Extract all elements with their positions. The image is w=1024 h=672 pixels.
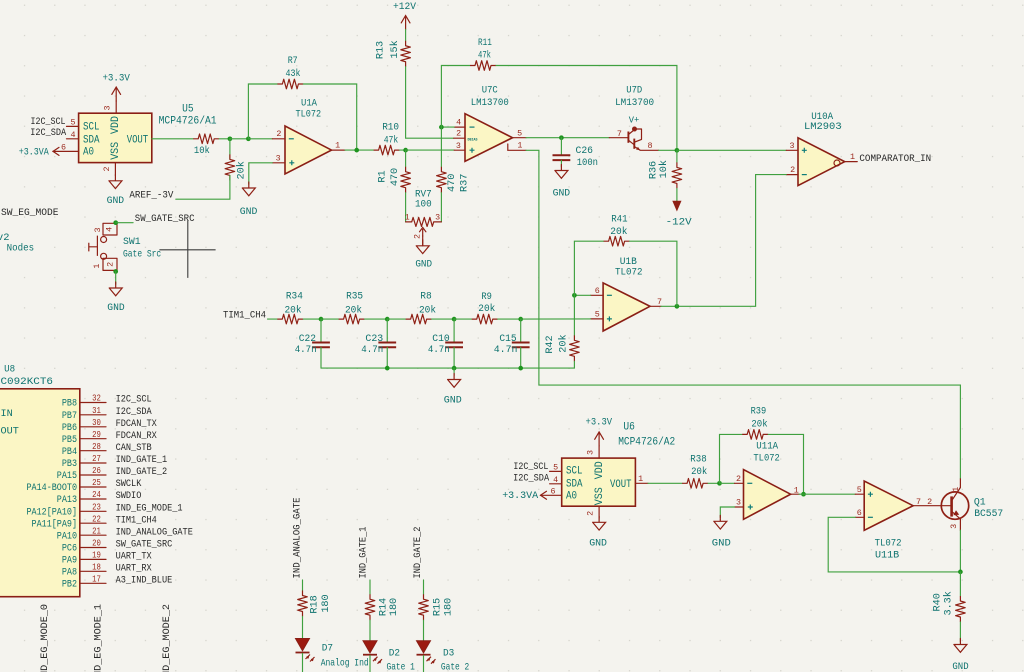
svg-text:1: 1 <box>517 141 522 151</box>
resistor R36 10k vertical <box>676 150 678 162</box>
svg-text:PB6: PB6 <box>62 423 77 434</box>
svg-text:3: 3 <box>789 141 794 151</box>
svg-text:R1: R1 <box>377 170 388 182</box>
U8 pin 18 PA8 stub <box>80 570 106 572</box>
svg-text:R10: R10 <box>382 122 399 133</box>
svg-text:20k: 20k <box>478 303 495 315</box>
svg-text:5: 5 <box>70 117 75 127</box>
svg-text:2: 2 <box>105 262 115 267</box>
resistor R41 20k feedback U1B <box>604 236 630 246</box>
svg-text:GND: GND <box>444 395 462 406</box>
svg-text:6: 6 <box>550 486 555 496</box>
wire U6 VOUT to R38 <box>648 482 682 484</box>
capacitor C22 4.7n <box>320 319 322 342</box>
U11A pin 2 stub <box>735 482 744 484</box>
resistor R18 180 vertical <box>298 591 308 617</box>
svg-text:SCL: SCL <box>83 122 100 134</box>
svg-text:21: 21 <box>92 526 101 536</box>
svg-text:20k: 20k <box>610 226 627 238</box>
op-amp U1A TL072 <box>285 126 332 174</box>
svg-text:PB4: PB4 <box>62 447 77 458</box>
junction U1B output <box>675 304 680 309</box>
U10A pin 2 stub <box>786 174 798 176</box>
U8 pin 32 PB8 stub <box>80 402 106 404</box>
wire feedback up to R7 <box>248 84 277 139</box>
svg-text:SW_EG_MODE: SW_EG_MODE <box>1 208 59 219</box>
svg-text:4.7n: 4.7n <box>295 345 317 356</box>
svg-text:32: 32 <box>92 394 101 404</box>
U8 pin 24 PA13 stub <box>80 498 106 500</box>
resistor R39 20k feedback U11A <box>742 430 768 440</box>
svg-text:GND: GND <box>107 196 125 207</box>
svg-text:10k: 10k <box>194 145 210 157</box>
svg-text:IND_EG_MODE_0: IND_EG_MODE_0 <box>40 604 51 672</box>
wire below D7 <box>302 653 304 672</box>
U1B pin 6 stub <box>591 294 604 296</box>
svg-text:47k: 47k <box>478 49 491 61</box>
svg-text:4.7n: 4.7n <box>361 345 383 356</box>
wire R13 down to U7C pin2 <box>406 67 454 138</box>
svg-text:180: 180 <box>443 598 454 616</box>
svg-text:SW_GATE_SRC: SW_GATE_SRC <box>135 214 195 225</box>
svg-text:PB3: PB3 <box>62 459 77 470</box>
svg-text:SDA: SDA <box>566 478 583 490</box>
capacitor C23 4.7n <box>386 319 388 342</box>
svg-text:180: 180 <box>389 598 400 616</box>
svg-text:FDCAN_RX: FDCAN_RX <box>116 431 157 442</box>
svg-text:SW1: SW1 <box>123 236 141 248</box>
svg-text:U8: U8 <box>4 363 15 375</box>
wire U7C pin1 long net to Q1 collector <box>526 150 960 479</box>
svg-text:LM13700: LM13700 <box>471 97 509 109</box>
wire junction down to R37 <box>440 127 442 167</box>
junction chain node3 <box>452 317 457 322</box>
svg-text:TL072: TL072 <box>296 108 322 120</box>
junction U1B pin6 node <box>572 293 577 298</box>
svg-text:Analog Ind: Analog Ind <box>321 658 369 670</box>
svg-text:3: 3 <box>435 213 440 223</box>
ground below U11A pin3 <box>714 515 727 529</box>
buffer U7D LM13700 darlington <box>609 127 641 151</box>
svg-text:LM2903: LM2903 <box>804 121 842 133</box>
ground below RV7 <box>416 240 429 254</box>
wire node to U11A pin2 <box>720 482 735 484</box>
ground below SW1 <box>109 282 122 296</box>
switch SW1 body <box>89 223 117 270</box>
U5 pin 3 VDD stub <box>115 101 117 113</box>
svg-text:FDCAN_TX: FDCAN_TX <box>116 419 157 430</box>
IC U5 MCP4726/A1 body <box>79 113 152 162</box>
U11B pin 7 output stub to Q1 <box>913 505 941 507</box>
U1A pin 2 stub <box>272 138 285 140</box>
svg-text:4: 4 <box>70 130 75 140</box>
wire SW1 pin2 to ground <box>115 272 117 285</box>
svg-text:AREF_-3V: AREF_-3V <box>129 190 174 201</box>
wire U7C out to U7D pin7 <box>526 137 609 139</box>
op-amp U10A LM2903 comparator <box>798 138 845 186</box>
svg-text:7: 7 <box>657 297 662 307</box>
wire below D2 <box>369 656 371 672</box>
svg-text:SDA: SDA <box>83 134 100 146</box>
svg-text:2: 2 <box>102 166 112 171</box>
svg-text:TL072: TL072 <box>615 267 643 279</box>
svg-text:R39: R39 <box>751 406 767 417</box>
svg-text:D7: D7 <box>322 643 333 655</box>
svg-text:IND_GATE_1: IND_GATE_1 <box>116 455 168 466</box>
svg-text:4: 4 <box>105 227 115 232</box>
svg-text:IN: IN <box>1 409 13 420</box>
svg-text:C26: C26 <box>576 146 594 157</box>
svg-text:3: 3 <box>736 498 741 508</box>
wire R7 to U1A output <box>303 84 356 150</box>
svg-text:I2C_SDA: I2C_SDA <box>116 407 153 418</box>
svg-text:Gate 2: Gate 2 <box>441 661 469 672</box>
U8 pin 23 PA12[PA10] stub <box>80 510 106 512</box>
capacitor C15 4.7n <box>520 319 522 342</box>
junction rail node4 <box>518 366 523 371</box>
resistor R13 15k vertical <box>401 41 411 67</box>
LED D2 Gate 1 <box>363 641 382 664</box>
U8 pin 21 PA10 stub <box>80 534 106 536</box>
svg-text:5: 5 <box>857 485 862 495</box>
ground below U6 <box>593 516 606 530</box>
svg-text:27: 27 <box>92 454 101 464</box>
wire IND_ANALOG_GATE to R18 <box>302 580 304 591</box>
svg-text:D2: D2 <box>389 647 400 659</box>
power symbol -12V <box>673 201 681 210</box>
svg-text:4: 4 <box>456 118 461 128</box>
svg-text:VSS: VSS <box>110 142 122 160</box>
wire IND_GATE_2 to R15 <box>423 580 425 594</box>
svg-text:8: 8 <box>647 141 652 151</box>
svg-text:R15: R15 <box>432 598 443 616</box>
U10A pin 3 stub <box>786 149 798 151</box>
op-amp U1B TL072 <box>603 283 650 331</box>
svg-text:R35: R35 <box>346 292 363 303</box>
wire U5 VOUT to R 10k <box>152 138 193 140</box>
svg-text:A0: A0 <box>566 490 577 502</box>
svg-text:7: 7 <box>617 129 622 139</box>
svg-text:1: 1 <box>405 213 410 223</box>
svg-text:PB7: PB7 <box>62 411 77 422</box>
svg-text:PB8: PB8 <box>62 399 77 410</box>
svg-text:A0: A0 <box>83 146 94 158</box>
U8 pin 30 PB6 stub <box>80 426 106 428</box>
svg-text:R13: R13 <box>376 41 387 59</box>
svg-text:GND: GND <box>240 207 258 218</box>
svg-text:TL072: TL072 <box>753 453 779 465</box>
wire node to U7C pin3 <box>406 149 455 151</box>
ground below U1A pin3 <box>242 182 255 196</box>
svg-text:2: 2 <box>276 129 281 139</box>
wire node to R40 <box>959 572 961 596</box>
wire R11 to right corner down to out node <box>496 66 677 151</box>
svg-text:3: 3 <box>103 105 113 110</box>
junction rail node2 <box>385 366 390 371</box>
U8 pin 27 PB3 stub <box>80 462 106 464</box>
op-amp U7C LM13700 <box>465 114 513 162</box>
svg-text:U11A: U11A <box>756 440 778 452</box>
svg-text:20k: 20k <box>751 419 767 431</box>
svg-text:U11B: U11B <box>875 549 899 561</box>
svg-text:VOUT: VOUT <box>610 479 632 491</box>
U8 pin 26 PA15 stub <box>80 474 106 476</box>
junction R38/U11A node <box>717 481 722 486</box>
svg-text:R11: R11 <box>478 38 492 49</box>
wire pin8 to node <box>659 149 677 151</box>
svg-text:5: 5 <box>517 128 522 138</box>
resistor R7 43k feedback U1A <box>277 79 303 89</box>
U7C pin 2 stub <box>454 137 465 139</box>
svg-text:VDD: VDD <box>110 116 122 134</box>
U6 pin 5 SCL stub <box>550 470 562 472</box>
wire below D3 <box>423 656 425 672</box>
svg-text:4.7n: 4.7n <box>494 345 518 356</box>
U8 pin 20 PC6 stub <box>80 547 106 549</box>
svg-text:R40: R40 <box>933 593 944 611</box>
wire R15 to LED D3 <box>423 620 425 641</box>
svg-text:+3.3VA: +3.3VA <box>19 148 50 159</box>
svg-text:470: 470 <box>447 174 458 192</box>
svg-text:47k: 47k <box>384 135 399 147</box>
svg-text:20: 20 <box>92 539 101 549</box>
U5 pin 4 SDA stub <box>67 138 79 140</box>
svg-text:29: 29 <box>92 430 101 440</box>
svg-text:30: 30 <box>92 418 101 428</box>
svg-text:R18: R18 <box>310 595 321 613</box>
ground symbol below U5 <box>109 175 122 189</box>
wire junction2 to U1A pin2 <box>248 138 272 140</box>
svg-text:IND_GATE_2: IND_GATE_2 <box>413 527 424 579</box>
U11A pin 1 output stub <box>791 493 799 495</box>
svg-text:D3: D3 <box>443 647 454 659</box>
svg-text:100: 100 <box>415 200 432 211</box>
svg-text:BC557: BC557 <box>974 508 1003 520</box>
svg-text:I2C_SCL: I2C_SCL <box>513 462 548 473</box>
svg-text:R9: R9 <box>481 292 492 303</box>
resistor R40 3.3k vertical <box>956 596 966 622</box>
svg-text:2: 2 <box>736 474 741 484</box>
svg-text:1: 1 <box>794 486 799 496</box>
svg-text:3: 3 <box>949 524 959 529</box>
svg-text:15k: 15k <box>389 40 401 58</box>
U7D pin 8 stub <box>640 149 658 151</box>
wire SW1 to label <box>116 222 133 224</box>
junction SW1 pin4 <box>113 220 118 225</box>
IC U6 MCP4726/A2 body <box>562 458 636 506</box>
svg-text:R36: R36 <box>648 161 659 179</box>
svg-text:R14: R14 <box>379 598 390 616</box>
svg-text:MCP4726/A1: MCP4726/A1 <box>159 116 217 128</box>
svg-text:31: 31 <box>92 406 101 416</box>
svg-text:PA15: PA15 <box>57 471 77 482</box>
resistor R35 20k <box>321 318 339 320</box>
svg-text:IND_EG_MODE_2: IND_EG_MODE_2 <box>162 604 173 672</box>
svg-text:24: 24 <box>92 490 101 500</box>
svg-text:PA11[PA9]: PA11[PA9] <box>32 518 77 530</box>
svg-text:3: 3 <box>276 153 281 163</box>
power symbol +3.3V above U6 <box>595 432 604 446</box>
junction chain node2 <box>385 317 390 322</box>
svg-text:C15: C15 <box>499 334 516 345</box>
svg-text:TIM1_CH4: TIM1_CH4 <box>116 515 157 526</box>
junction U11A output <box>801 492 806 497</box>
resistor R10 47k <box>374 145 400 155</box>
ground below filter rail <box>448 374 461 388</box>
U7C pin 4 stub <box>454 126 465 128</box>
svg-text:18: 18 <box>92 562 101 572</box>
svg-text:3: 3 <box>456 141 461 151</box>
resistor R8 20k <box>387 318 405 320</box>
svg-text:LM13700: LM13700 <box>615 97 654 109</box>
svg-text:3: 3 <box>585 450 595 455</box>
op-amp U11B TL072 <box>864 481 913 530</box>
U6 pin 6 A0 stub with arrow <box>541 494 562 496</box>
resistor R34 20k <box>277 314 303 324</box>
junction SW1 pin2 <box>113 269 118 274</box>
svg-text:100n: 100n <box>577 158 598 169</box>
resistor R15 180 vertical <box>419 594 429 620</box>
svg-text:7: 7 <box>916 497 921 507</box>
svg-text:+3.3V: +3.3V <box>102 74 130 85</box>
svg-text:6: 6 <box>857 508 862 518</box>
svg-text:U7D: U7D <box>626 84 642 96</box>
U8 pin 29 PB5 stub <box>80 438 106 440</box>
wire node4 to U1B pin5 <box>521 318 591 320</box>
svg-text:R7: R7 <box>288 56 298 67</box>
svg-text:+3.3VA: +3.3VA <box>502 491 539 502</box>
svg-text:TIM1_CH4: TIM1_CH4 <box>223 310 266 321</box>
svg-text:PA13: PA13 <box>57 495 77 506</box>
svg-text:4.7n: 4.7n <box>428 345 450 356</box>
power symbol +3.3V above U5 <box>112 87 121 101</box>
svg-text:20k: 20k <box>558 334 570 352</box>
ground below R40 <box>954 639 967 653</box>
svg-text:IND_EG_MODE_1: IND_EG_MODE_1 <box>94 604 105 672</box>
svg-text:V+: V+ <box>629 115 640 125</box>
svg-text:10k: 10k <box>658 160 670 178</box>
svg-text:IND_ANALOG_GATE: IND_ANALOG_GATE <box>293 498 304 579</box>
svg-text:I2C_SDA: I2C_SDA <box>513 474 550 485</box>
junction node VOUT/20k <box>228 136 233 141</box>
U7C pin 5 output stub <box>513 137 527 139</box>
ground below C26 <box>555 165 568 179</box>
svg-text:A3_IND_BLUE: A3_IND_BLUE <box>116 575 173 586</box>
svg-text:COMPARATOR_IN: COMPARATOR_IN <box>859 153 931 165</box>
junction R10/R1 node <box>403 148 408 153</box>
svg-text:PB2: PB2 <box>62 579 77 590</box>
transistor Q1 BC557 PNP <box>941 479 968 530</box>
resistor R14 180 vertical <box>365 594 375 620</box>
svg-text:Gate Src: Gate Src <box>123 249 161 261</box>
junction output node (R36/R11/U10A) <box>675 148 680 153</box>
svg-text:22: 22 <box>92 514 101 524</box>
wire U7C pin4 from junction <box>441 126 454 128</box>
svg-text:43k: 43k <box>286 68 301 80</box>
svg-text:2: 2 <box>585 511 595 516</box>
svg-text:1: 1 <box>951 487 961 492</box>
svg-text:TL072: TL072 <box>875 537 902 549</box>
wire U11A pin3 to ground <box>720 507 734 518</box>
svg-text:19: 19 <box>92 551 101 561</box>
svg-text:20k: 20k <box>345 305 362 317</box>
wire +12V to R13 <box>405 30 407 41</box>
svg-text:GND: GND <box>712 539 731 550</box>
wire R14 to LED D2 <box>369 620 371 641</box>
svg-text:GND: GND <box>589 539 607 550</box>
svg-text:1: 1 <box>850 152 855 162</box>
svg-text:Q1: Q1 <box>974 496 986 508</box>
power symbol +12V <box>401 16 410 30</box>
svg-text:DBIAS: DBIAS <box>468 139 478 143</box>
U1B pin 5 stub <box>591 318 604 320</box>
svg-text:IND_GATE_1: IND_GATE_1 <box>359 527 370 579</box>
svg-text:4: 4 <box>553 475 558 485</box>
svg-text:R42: R42 <box>545 335 556 353</box>
svg-text:PA14-BOOT0: PA14-BOOT0 <box>27 483 78 494</box>
U8 pin 28 PB4 stub <box>80 450 106 452</box>
svg-text:28: 28 <box>92 442 101 452</box>
svg-text:Nodes: Nodes <box>7 242 34 254</box>
wire node to U10A pin3 <box>677 149 786 151</box>
U11B pin 6 stub <box>855 516 864 518</box>
junction node feedback <box>246 136 251 141</box>
svg-text:PA12[PA10]: PA12[PA10] <box>27 506 78 518</box>
svg-text:GND: GND <box>415 260 432 271</box>
svg-text:Gate 1: Gate 1 <box>387 661 415 672</box>
svg-text:IND_ANALOG_GATE: IND_ANALOG_GATE <box>116 527 193 538</box>
RV7 wiper stub to ground <box>422 236 424 246</box>
svg-text:C23: C23 <box>365 334 383 345</box>
svg-text:R38: R38 <box>690 455 706 466</box>
svg-text:23: 23 <box>92 502 101 512</box>
svg-text:2: 2 <box>456 129 461 139</box>
svg-text:5: 5 <box>595 310 600 320</box>
svg-text:R37: R37 <box>459 174 470 192</box>
U8 pin 25 PA14-BOOT0 stub <box>80 486 106 488</box>
U11B pin 5 stub <box>855 493 864 495</box>
svg-text:MCP4726/A2: MCP4726/A2 <box>618 437 675 449</box>
junction chain node4 <box>518 317 523 322</box>
resistor 10k (U5 output) <box>193 134 219 144</box>
U10A pin 1 output stub <box>845 161 858 163</box>
svg-text:5: 5 <box>553 462 558 472</box>
svg-text:SWDIO: SWDIO <box>116 491 142 502</box>
feedback loop R39 <box>720 434 743 483</box>
svg-text:20k: 20k <box>285 305 302 317</box>
U6 pin 2 VSS stub <box>598 506 600 518</box>
svg-text:PC6: PC6 <box>62 544 77 555</box>
junction U1A output <box>354 148 359 153</box>
svg-text:PA10: PA10 <box>57 531 77 542</box>
wire pin6 node to stub <box>574 294 590 296</box>
svg-text:VOUT: VOUT <box>127 134 149 146</box>
junction pin4/feedback <box>439 125 444 130</box>
svg-text:R41: R41 <box>611 214 627 225</box>
svg-text:2: 2 <box>413 234 423 239</box>
wire U1B out to node <box>661 305 677 307</box>
svg-text:SW_GATE_SRC: SW_GATE_SRC <box>116 540 173 551</box>
wire C26 to ground <box>560 160 562 167</box>
svg-text:-12V: -12V <box>666 217 693 228</box>
svg-text:CAN_STB: CAN_STB <box>116 443 152 454</box>
wire down to C26 <box>560 138 562 155</box>
LED D7 Analog Ind <box>296 639 315 662</box>
op-amp U11A TL072 <box>744 470 791 520</box>
resistor R37 470 vertical <box>437 167 447 193</box>
wire U1A pin3 to GND <box>249 163 273 184</box>
resistor R38 20k <box>682 479 708 489</box>
